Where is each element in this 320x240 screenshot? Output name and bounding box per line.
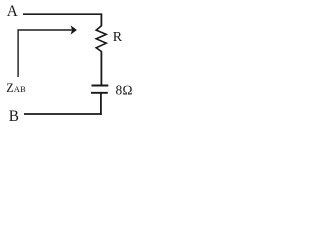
capacitor (8 ohm) top plate [92,85,109,87]
wire: between resistor and capacitor [100,51,102,85]
svg-text:R: R [113,30,123,45]
svg-text:A: A [7,3,18,20]
wire: right vertical from corner down to resistor [100,13,102,26]
wire: below capacitor to bottom-right corner [100,93,102,115]
arrow: Z_AB looking-in direction (L-shaped with right arrowhead) [18,30,72,77]
svg-text:8Ω: 8Ω [116,83,133,98]
svg-text:B: B [9,108,19,125]
wire: bottom from corner to node B [24,113,102,115]
resistor R [96,26,106,52]
svg-text:ZAB: ZAB [6,81,26,95]
capacitor (8 ohm) bottom plate [91,92,108,94]
wire: top from node A to top-right corner [23,13,101,15]
